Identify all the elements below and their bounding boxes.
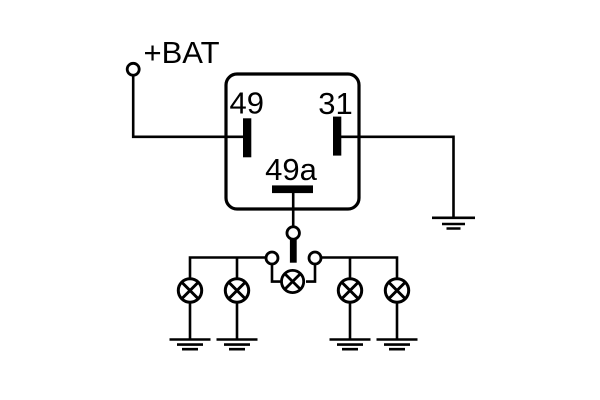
svg-text:49a: 49a [265,152,317,187]
svg-text:+BAT: +BAT [144,35,220,70]
svg-text:31: 31 [318,86,352,121]
svg-text:49: 49 [230,86,264,121]
